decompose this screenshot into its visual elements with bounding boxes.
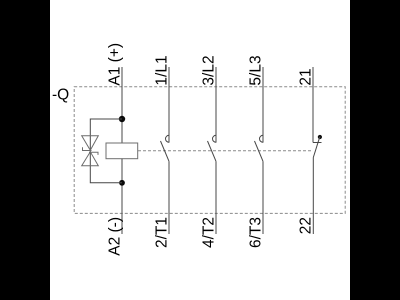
main contact pole 2: moving blade (NO contact) bbox=[208, 141, 217, 161]
svg-text:6/T3: 6/T3 bbox=[248, 217, 265, 248]
svg-text:A1 (+): A1 (+) bbox=[107, 43, 124, 86]
main contact pole 2: wire 3/L2 terminal lead (x=216) bbox=[215, 67, 217, 143]
main contact pole 1: fixed contact arc bbox=[166, 135, 169, 142]
surge suppressor F1: lower triangle (diode pointing up) bbox=[82, 152, 99, 166]
svg-text:3/L2: 3/L2 bbox=[201, 55, 218, 85]
auxiliary NC contact: wire 21 terminal lead (x=313) bbox=[312, 67, 314, 143]
contactor -Q outline (dashed enclosure box) bbox=[74, 87, 345, 214]
svg-text:2/T1: 2/T1 bbox=[154, 217, 171, 248]
node junction A2-suppressor bbox=[119, 180, 125, 186]
svg-text:4/T2: 4/T2 bbox=[201, 217, 218, 248]
wire A2 terminal lead (bottom, x=122) bbox=[121, 159, 123, 234]
main contact pole 1: wire 1/L1 terminal lead (x=169) bbox=[168, 67, 170, 143]
wire A1 terminal lead (top, x=122) bbox=[121, 67, 123, 143]
svg-text:A2 (-): A2 (-) bbox=[107, 217, 124, 256]
main contact pole 3: wire 6/T3 terminal lead bbox=[262, 161, 264, 234]
main contact pole 1: wire 2/T1 terminal lead bbox=[168, 161, 170, 234]
coil of contactor -Q (operating coil rectangle) bbox=[106, 143, 138, 159]
surge suppressor F1: upper triangle (diode pointing down) bbox=[82, 136, 99, 150]
svg-text:-Q: -Q bbox=[52, 86, 69, 103]
auxiliary NC contact: contact point dot bbox=[318, 135, 322, 139]
wire suppressor branch center (through suppressor) bbox=[89, 136, 91, 166]
auxiliary NC contact: wire 22 terminal lead bbox=[312, 158, 314, 235]
main contact pole 3: wire 5/L3 terminal lead (x=263) bbox=[262, 67, 264, 143]
svg-text:21: 21 bbox=[298, 68, 315, 85]
auxiliary NC contact: fixed contact stop bar bbox=[313, 142, 322, 144]
main contact pole 2: wire 4/T2 terminal lead bbox=[215, 161, 217, 234]
surge suppressor F1: lower cathode bar with hook bbox=[89, 152, 98, 155]
svg-text:1/L1: 1/L1 bbox=[154, 55, 171, 85]
svg-text:5/L3: 5/L3 bbox=[248, 55, 265, 85]
mechanical linkage (dashed actuator line from coil to contacts) bbox=[138, 150, 311, 152]
main contact pole 3: fixed contact arc bbox=[260, 135, 264, 142]
wire suppressor branch bottom (suppressor to junction) bbox=[90, 166, 122, 183]
main contact pole 2: fixed contact arc bbox=[213, 135, 217, 142]
node junction A1-suppressor bbox=[119, 116, 125, 122]
main contact pole 1: moving blade (NO contact) bbox=[161, 141, 170, 161]
auxiliary NC contact: moving blade bbox=[313, 137, 320, 158]
surge suppressor F1: upper cathode bar with hook bbox=[83, 147, 92, 150]
svg-text:22: 22 bbox=[298, 217, 315, 234]
main contact pole 3: moving blade (NO contact) bbox=[255, 141, 264, 161]
wire suppressor branch top (junction to suppressor) bbox=[90, 119, 122, 136]
